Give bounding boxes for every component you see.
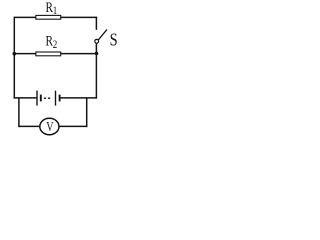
wire voltmeter branch left (down from bottom wire) <box>18 98 20 127</box>
battery plate short 1 <box>40 95 42 102</box>
battery plate short 2 <box>59 95 61 102</box>
wire right rail lower (switch to bottom wire) <box>95 43 97 98</box>
voltmeter body <box>40 118 59 135</box>
svg-text:S: S <box>110 29 118 50</box>
wire R2 left (left rail to R2) <box>14 53 36 55</box>
junction dot left (R2 / left rail) <box>13 52 17 56</box>
label R2 <box>46 32 58 51</box>
wire top (left rail to R1) <box>14 16 36 18</box>
battery plate long 2 <box>55 91 57 106</box>
wire R1 to top-right corner <box>61 16 97 18</box>
wire voltmeter branch right (up to bottom wire) <box>86 98 88 127</box>
resistor R2 <box>36 52 61 56</box>
junction dot right (R2 / right rail) <box>95 52 99 56</box>
label R1 <box>46 0 58 17</box>
battery dashes (omitted cells) <box>44 97 50 99</box>
background <box>0 0 118 138</box>
svg-text:R: R <box>46 0 54 15</box>
battery plate long 1 <box>36 91 38 106</box>
switch S blade <box>98 30 107 40</box>
switch S pivot circle <box>95 39 99 43</box>
wire right rail upper (to switch fixed contact) <box>95 17 97 30</box>
resistor R1 <box>36 15 61 19</box>
wire R2 right (R2 to right rail) <box>61 53 97 55</box>
wire voltmeter left horizontal <box>19 125 40 127</box>
wire bottom left (left rail corner to battery) <box>14 97 37 99</box>
svg-text:V: V <box>46 118 53 134</box>
wire left rail <box>13 17 15 99</box>
svg-text:1: 1 <box>53 5 57 17</box>
svg-text:2: 2 <box>53 39 57 51</box>
wire bottom right (battery to right rail) <box>61 97 97 99</box>
wire voltmeter right horizontal <box>59 125 87 127</box>
